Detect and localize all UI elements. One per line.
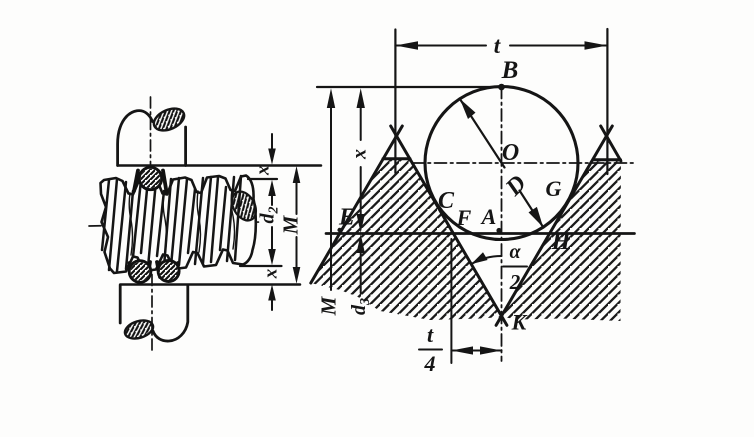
horizontal centerline through O [412, 162, 635, 164]
dimension t/4: extension line [450, 239, 452, 363]
hatched material region [311, 136, 621, 321]
bottom anvil body [120, 285, 188, 341]
right tooth: left flank line [496, 126, 612, 325]
svg-text:O: O [502, 140, 519, 166]
right tooth: right flank line [601, 126, 621, 161]
svg-text:2: 2 [509, 270, 521, 294]
screw thread root curves [129, 190, 234, 256]
svg-text:M: M [279, 214, 303, 235]
screw body outline [101, 176, 256, 274]
measuring wire (bottom right) [158, 261, 179, 282]
top anvil centerline [150, 97, 152, 170]
svg-text:x: x [253, 165, 274, 176]
dimension t: extension lines [395, 29, 607, 174]
svg-text:K: K [511, 310, 528, 335]
top anvil body [118, 111, 186, 166]
svg-text:B: B [501, 57, 519, 84]
left tooth: right flank line [391, 126, 507, 325]
svg-text:G: G [546, 176, 562, 201]
svg-text:4: 4 [424, 351, 436, 376]
measuring wire (top) [139, 167, 161, 189]
svg-text:d3: d3 [348, 298, 373, 315]
svg-text:x: x [349, 149, 371, 160]
svg-text:A: A [480, 204, 497, 229]
pitch line through E F A H [326, 232, 635, 235]
dimension x (right figure) [357, 88, 365, 108]
svg-text:t: t [427, 322, 434, 347]
point A dot [496, 228, 501, 233]
svg-text:M: M [317, 295, 341, 316]
measuring wire (bottom left) [129, 261, 151, 283]
svg-text:H: H [551, 229, 572, 255]
groove white mask above crests [383, 136, 410, 159]
bottom anvil broken-section ellipse [123, 317, 156, 341]
angle arc for alpha/2 [471, 256, 501, 264]
dimension M (right figure) [327, 88, 335, 108]
svg-text:F: F [456, 205, 472, 230]
right tooth crest flat [593, 158, 621, 161]
dimension d3 (right figure) [357, 234, 365, 253]
dimension x (top, left figure): arrows [271, 134, 273, 151]
svg-text:E: E [338, 205, 355, 231]
measuring wire circle [425, 87, 578, 240]
screw axis centerline [89, 222, 262, 226]
top anvil measuring face line [118, 164, 321, 167]
point B dot [498, 84, 505, 91]
left figure dimension: bottom crest extension line [240, 265, 282, 267]
thread shadow notches beside wires [130, 171, 179, 279]
bottom anvil measuring face line [120, 283, 300, 286]
vertical centerline B O A K [501, 87, 503, 362]
svg-text:x: x [261, 268, 282, 279]
left tooth crest flat [383, 157, 410, 160]
svg-text:C: C [438, 188, 455, 214]
dimension t/4: dimension line with arrows [451, 350, 501, 352]
point E dot [337, 228, 341, 232]
dimension M (left figure) [293, 166, 301, 183]
left tooth: left flank line [311, 126, 403, 283]
svg-text:t: t [494, 33, 501, 58]
top tangent line at B [317, 86, 502, 88]
screw thread texture lines [102, 176, 241, 271]
dimension t: dimension line [395, 45, 607, 47]
top anvil broken-section ellipse [150, 104, 187, 135]
svg-text:α: α [509, 241, 521, 263]
svg-text:D: D [500, 171, 531, 202]
bottom anvil centerline [151, 253, 153, 351]
screw broken-end ellipse [227, 187, 261, 224]
wire diameter arrow [460, 99, 543, 227]
left figure dimension: top crest extension line [248, 178, 277, 180]
dimension d2 (left figure) [271, 195, 273, 251]
